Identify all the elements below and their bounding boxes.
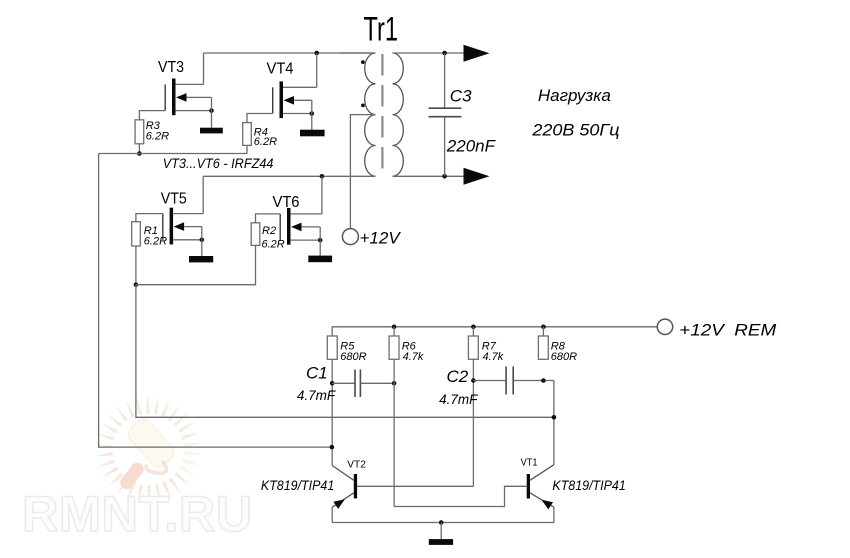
wire (primary bottom to VT5/VT6 drains) — [203, 175, 375, 177]
wire (VT5 gate to R1) — [136, 214, 163, 222]
wire (VT6 drain riser) — [321, 176, 323, 214]
svg-text:6.2R: 6.2R — [262, 239, 285, 251]
transistor VT6 (IRFZ44 MOSFET) — [280, 208, 322, 245]
wire (+12V REM rail) — [332, 326, 657, 328]
label R5 680R — [340, 340, 366, 363]
wire (VT5 source to ground) — [201, 227, 203, 256]
Tr1 polarity dot (top) — [361, 60, 365, 64]
node (VT6 drain junction) — [320, 174, 325, 179]
svg-text:680R: 680R — [340, 351, 366, 363]
svg-text:220В 50Гц: 220В 50Гц — [531, 120, 619, 139]
svg-text:VT2: VT2 — [347, 459, 366, 471]
terminal +12V REM — [657, 319, 672, 334]
wire (R2 bottom lead / drive line VT5-VT6) — [136, 245, 256, 284]
node (R7 rail junction) — [471, 325, 476, 330]
wire (node B vertical: C2/VT1 collector) — [553, 381, 555, 465]
resistor R5 — [327, 327, 337, 360]
wire (VT3 gate to R3) — [139, 111, 165, 120]
svg-text:Нагрузка: Нагрузка — [538, 86, 611, 105]
node (drive line junction on node B) — [552, 415, 557, 420]
output terminal arrow (bottom) — [464, 168, 490, 185]
wire (secondary top lead) — [393, 52, 464, 54]
wire (node A vertical: R5/C1/VT2 collector) — [331, 359, 333, 465]
resistor R3 — [135, 120, 144, 144]
node (C2 left junction) — [471, 378, 476, 383]
Tr1 polarity dot (bottom) — [361, 104, 365, 108]
resistor R2 — [251, 223, 260, 246]
label R7 4.7k — [482, 340, 504, 363]
svg-text:C2: C2 — [447, 367, 469, 386]
capacitor C1 — [332, 370, 394, 398]
wire (center tap to +12V) — [350, 115, 375, 229]
svg-text:+12V: +12V — [360, 229, 402, 248]
wire (VT6 source to ground) — [319, 227, 321, 256]
svg-text:4.7mF: 4.7mF — [439, 392, 478, 407]
label R3 6.2R — [146, 120, 169, 142]
svg-text:Tr1: Tr1 — [364, 11, 399, 49]
ground (emitter rail) — [429, 539, 453, 545]
node (C2/R8 junction) — [541, 378, 546, 383]
svg-text:R2: R2 — [262, 225, 276, 237]
svg-text:VT6: VT6 — [273, 194, 300, 211]
wire (R1 bottom lead) — [135, 246, 137, 285]
svg-text:RMNT.RU: RMNT.RU — [22, 485, 253, 542]
svg-text:6.2R: 6.2R — [144, 235, 167, 247]
transistor VT1 (KT819/TIP41) — [394, 465, 554, 523]
label R2 6.2R — [262, 225, 285, 251]
resistor R4 — [243, 123, 252, 146]
output terminal arrow (top) — [464, 45, 490, 62]
svg-text:4.7k: 4.7k — [483, 351, 504, 363]
wire (VT3 drain riser) — [203, 53, 205, 84]
watermark sun logo — [94, 395, 204, 505]
wire (VT5 drain riser) — [202, 176, 204, 213]
svg-text:6.2R: 6.2R — [146, 130, 169, 142]
svg-text:C3: C3 — [450, 87, 472, 106]
svg-text:4.7mF: 4.7mF — [297, 388, 336, 403]
label R8 680R — [551, 340, 577, 363]
node (R1 / drive line junction) — [134, 282, 139, 287]
svg-text:VT4: VT4 — [267, 61, 294, 78]
transistor VT5 (IRFZ44 MOSFET) — [163, 208, 204, 245]
svg-text:VT1: VT1 — [521, 457, 538, 469]
node (R6 rail junction) — [392, 325, 397, 330]
ground (VT3 source) — [200, 128, 223, 134]
node (C1 right junction) — [392, 381, 397, 386]
wire (VT4 source to ground) — [311, 100, 313, 129]
svg-text:680R: 680R — [551, 351, 577, 363]
wire (drive line to VT2 collector node) — [99, 154, 332, 448]
svg-text:VT3...VT6 - IRFZ44: VT3...VT6 - IRFZ44 — [163, 155, 274, 171]
node (C1 left junction) — [330, 381, 335, 386]
wire (R7 to VT2 base) — [472, 359, 474, 486]
ground (VT6 source) — [308, 256, 332, 263]
resistor R7 — [468, 327, 478, 360]
label R4 6.2R — [254, 127, 277, 148]
node (C3 bottom junction) — [442, 174, 447, 179]
node (ground junction) — [439, 520, 444, 525]
node (R8 rail junction) — [541, 325, 546, 330]
svg-text:+12V REM: +12V REM — [679, 321, 777, 340]
svg-text:KT819/TIP41: KT819/TIP41 — [261, 477, 334, 493]
resistor R8 — [538, 327, 548, 360]
wire (VT3 source to ground) — [211, 97, 213, 127]
wire (VT6 gate to R2) — [256, 214, 281, 223]
transformer Tr1 primary winding — [340, 53, 376, 176]
transistor VT3 (IRFZ44 MOSFET) — [165, 79, 214, 116]
terminal +12V — [342, 229, 358, 245]
label R6 4.7k — [402, 340, 424, 363]
node (VT4 drain junction) — [314, 51, 319, 56]
wire (secondary bottom lead) — [393, 175, 464, 177]
svg-text:VT3: VT3 — [158, 59, 184, 76]
label R1 6.2R — [144, 225, 167, 247]
transformer Tr1 secondary winding — [393, 53, 404, 176]
wire (R6/C1 to VT1 base link) — [393, 359, 395, 506]
wire (emitter rail) — [332, 522, 554, 524]
wire (R3 bottom lead) — [138, 144, 140, 154]
node (R3 / drive line junction) — [137, 151, 142, 156]
resistor R6 — [389, 327, 399, 360]
wire (gate drive line VT3/VT4) — [99, 153, 247, 155]
node (drive line junction on node A) — [330, 445, 335, 450]
svg-text:4.7k: 4.7k — [403, 351, 424, 363]
ground (VT5 source) — [189, 256, 213, 262]
node (C3 top junction) — [442, 51, 447, 56]
svg-text:VT5: VT5 — [161, 190, 187, 207]
resistor R1 — [132, 222, 141, 246]
svg-text:6.2R: 6.2R — [254, 136, 277, 148]
svg-text:KT819/TIP41: KT819/TIP41 — [552, 477, 625, 493]
capacitor C2 — [473, 367, 554, 395]
ground (VT4 source) — [300, 130, 325, 137]
svg-text:220nF: 220nF — [446, 137, 497, 156]
wire (drain rail VT3/VT4 to primary top) — [204, 52, 376, 54]
svg-text:C1: C1 — [306, 363, 328, 382]
capacitor C3 — [429, 53, 462, 176]
wire (drive line to VT1 collector node) — [136, 285, 554, 418]
transistor VT2 (KT819/TIP41) — [332, 466, 473, 523]
wire (ground lead) — [440, 523, 442, 540]
transistor VT4 (IRFZ44 MOSFET) — [273, 81, 317, 118]
transformer Tr1 core — [381, 54, 383, 178]
wire (VT4 drain riser) — [316, 53, 318, 87]
wire (R4 bottom lead) — [246, 145, 248, 153]
wire (VT4 gate to R4) — [247, 114, 273, 123]
